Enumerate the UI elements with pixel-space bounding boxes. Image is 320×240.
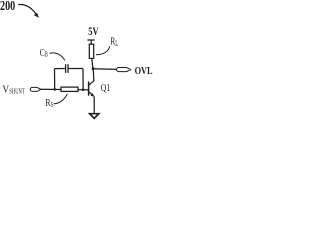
transistor Q1 emitter diagonal bbox=[89, 92, 93, 96]
svg-text:V: V bbox=[2, 83, 9, 95]
transistor Q1 base bar bbox=[88, 81, 90, 95]
wire node to Q1 collector bbox=[92, 69, 95, 81]
svg-text:OVL: OVL bbox=[135, 66, 153, 77]
leader line CB bbox=[49, 53, 64, 61]
junction dot right bbox=[82, 88, 85, 91]
resistor RL bbox=[89, 44, 93, 58]
svg-text:5V: 5V bbox=[88, 26, 99, 38]
node junction dot bbox=[92, 67, 95, 70]
wire RL to collector node bbox=[92, 58, 93, 68]
wire base rail bbox=[41, 88, 89, 91]
wire 5V bar to RL bbox=[90, 40, 92, 44]
leader line Rs bbox=[54, 94, 68, 104]
svg-text:SHUNT: SHUNT bbox=[9, 88, 25, 96]
transistor Q1 collector diagonal bbox=[89, 81, 94, 86]
svg-text:L: L bbox=[115, 39, 118, 48]
wire cap loop top right bbox=[68, 68, 83, 70]
leader line RL bbox=[96, 46, 110, 55]
OVL output terminal bbox=[117, 68, 131, 72]
leader arrow for 200 bbox=[18, 4, 36, 14]
svg-text:B: B bbox=[45, 50, 48, 58]
svg-text:200: 200 bbox=[0, 0, 15, 14]
svg-text:Q1: Q1 bbox=[101, 83, 111, 94]
ground bbox=[90, 114, 99, 119]
wire cap loop top left bbox=[55, 68, 66, 70]
wire cap loop right leg bbox=[82, 69, 84, 90]
junction dot left bbox=[53, 88, 56, 91]
capacitor CB plates bbox=[65, 64, 67, 73]
5V supply terminal bar bbox=[87, 39, 94, 41]
wire cap loop left leg bbox=[54, 69, 56, 90]
wire emitter to ground bbox=[93, 97, 95, 114]
svg-text:S: S bbox=[51, 101, 54, 109]
wire node to OVL terminal bbox=[93, 68, 117, 71]
resistor Rs bbox=[61, 87, 78, 91]
